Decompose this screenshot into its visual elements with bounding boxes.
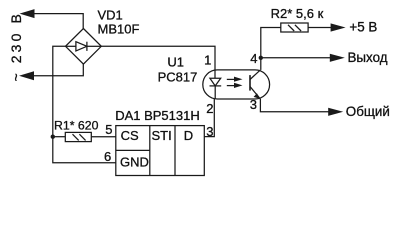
node arrow: common terminal — [328, 108, 343, 116]
svg-text:VD1: VD1 — [98, 8, 123, 23]
light arrows inside U1 — [227, 77, 243, 88]
svg-text:U1: U1 — [167, 55, 184, 70]
svg-text:CS: CS — [121, 128, 139, 143]
wire: pin 2 of U1 down to pin 3 of DA1 — [204, 99, 214, 137]
wire: node 4 up to R2 — [261, 28, 281, 58]
wire: R2 to +5V arrow — [308, 27, 332, 29]
resistor R2 — [281, 23, 308, 32]
wire: pin 3 of U1 to common arrow — [260, 99, 329, 112]
svg-text:3: 3 — [250, 97, 257, 112]
LED inside U1 — [210, 70, 222, 99]
node arrow: AC terminal 1 — [20, 9, 35, 18]
svg-text:5: 5 — [105, 122, 112, 137]
svg-text:Общий: Общий — [346, 104, 390, 119]
svg-text:6: 6 — [104, 149, 111, 164]
svg-text:D: D — [184, 128, 193, 143]
svg-text:1: 1 — [204, 53, 211, 68]
wire AC line 1 (top) — [28, 14, 83, 29]
svg-text:~ 230 В: ~ 230 В — [8, 11, 24, 81]
svg-text:STI: STI — [151, 128, 171, 143]
svg-text:R1* 620: R1* 620 — [54, 119, 99, 133]
wire: minus rail from bridge left corner down and to GND pin 6 — [53, 46, 116, 162]
svg-text:2: 2 — [206, 101, 213, 116]
diode inside VD1 — [66, 42, 102, 51]
wire: pin 4 of U1 up to node 4 — [260, 58, 262, 70]
wire: junction to R1 — [53, 136, 66, 138]
wire AC line 2 (bottom) — [28, 64, 83, 76]
svg-text:DA1 BP5131H: DA1 BP5131H — [115, 108, 200, 123]
svg-text:PC817: PC817 — [158, 70, 198, 85]
svg-text:R2* 5,6 к: R2* 5,6 к — [271, 6, 324, 21]
node arrow: output terminal — [330, 54, 345, 62]
svg-text:+5 В: +5 В — [349, 20, 377, 35]
bridge rectifier VD1 body — [66, 29, 102, 65]
wire: plus rail from bridge right corner to optocoupler pin 1 — [101, 46, 215, 70]
optocoupler U1 PC817 body — [203, 70, 270, 99]
node arrow: AC terminal 2 — [19, 71, 34, 80]
node 4 junction — [259, 56, 263, 60]
IC DA1 BP5131H body — [116, 126, 205, 176]
node junction at R1 tap — [51, 135, 55, 139]
node arrow: +5V terminal — [331, 23, 346, 31]
wire: R1 to pin 5 of DA1 — [91, 136, 116, 138]
phototransistor inside U1 — [250, 70, 260, 99]
svg-text:GND: GND — [120, 155, 149, 170]
svg-text:3: 3 — [206, 124, 213, 139]
svg-text:4: 4 — [250, 51, 257, 66]
svg-text:Выход: Выход — [348, 50, 388, 65]
resistor R1 — [65, 132, 91, 141]
wire: node 4 to output arrow — [261, 57, 331, 59]
svg-text:MB10F: MB10F — [98, 22, 140, 37]
